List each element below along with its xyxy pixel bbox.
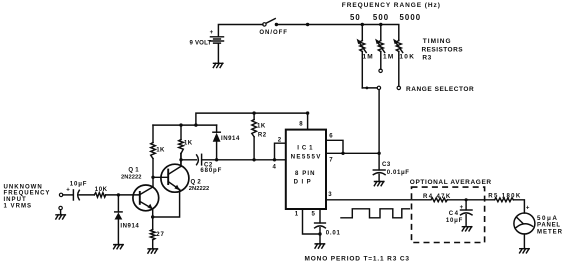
svg-text:TIMING: TIMING bbox=[423, 38, 452, 45]
svg-text:50μA: 50μA bbox=[537, 215, 558, 222]
svg-text:1 VRMS: 1 VRMS bbox=[4, 204, 33, 210]
svg-text:Q1: Q1 bbox=[128, 167, 140, 173]
svg-text:NE555V: NE555V bbox=[291, 153, 322, 160]
svg-text:1K: 1K bbox=[257, 124, 266, 130]
svg-text:6: 6 bbox=[329, 133, 333, 139]
svg-text:0.01: 0.01 bbox=[326, 231, 341, 237]
svg-text:8 PIN: 8 PIN bbox=[295, 171, 316, 177]
svg-text:INPUT: INPUT bbox=[4, 197, 27, 203]
svg-text:680pF: 680pF bbox=[200, 168, 222, 174]
svg-text:+: + bbox=[210, 30, 214, 36]
svg-text:FREQUENCY: FREQUENCY bbox=[4, 191, 51, 197]
svg-text:10μF: 10μF bbox=[446, 218, 463, 224]
svg-text:PANEL: PANEL bbox=[537, 223, 561, 229]
svg-text:1K: 1K bbox=[184, 141, 193, 147]
svg-text:5000: 5000 bbox=[400, 13, 422, 22]
svg-text:3: 3 bbox=[328, 192, 332, 198]
svg-text:RANGE SELECTOR: RANGE SELECTOR bbox=[406, 86, 474, 93]
svg-text:0.01μF: 0.01μF bbox=[387, 170, 410, 176]
svg-text:2N2222: 2N2222 bbox=[189, 186, 209, 192]
svg-text:.1M: .1M bbox=[380, 54, 394, 61]
svg-text:FREQUENCY RANGE (Hz): FREQUENCY RANGE (Hz) bbox=[342, 2, 441, 9]
svg-text:500: 500 bbox=[373, 13, 389, 22]
svg-text:7: 7 bbox=[329, 158, 333, 164]
svg-text:C3: C3 bbox=[382, 162, 391, 168]
svg-text:DIP: DIP bbox=[294, 180, 315, 186]
svg-text:+: + bbox=[66, 188, 70, 194]
svg-text:UNKNOWN: UNKNOWN bbox=[4, 184, 43, 190]
svg-text:10μF: 10μF bbox=[70, 181, 88, 187]
svg-text:9 VOLT: 9 VOLT bbox=[190, 40, 212, 46]
svg-text:2: 2 bbox=[278, 137, 282, 143]
svg-text:50: 50 bbox=[350, 13, 361, 22]
svg-text:R2: R2 bbox=[258, 132, 267, 138]
svg-text:C4: C4 bbox=[449, 211, 460, 217]
svg-text:IN914: IN914 bbox=[120, 224, 139, 230]
svg-text:2N2222: 2N2222 bbox=[121, 174, 141, 180]
svg-text:1M: 1M bbox=[363, 54, 374, 61]
svg-text:IC1: IC1 bbox=[297, 145, 315, 151]
svg-text:1K: 1K bbox=[156, 147, 165, 153]
svg-text:RESISTORS: RESISTORS bbox=[422, 46, 464, 53]
svg-text:ON/OFF: ON/OFF bbox=[259, 30, 288, 36]
svg-text:MONO PERIOD T=1.1 R3 C3: MONO PERIOD T=1.1 R3 C3 bbox=[305, 255, 410, 261]
svg-text:1: 1 bbox=[295, 212, 299, 218]
svg-text:METER: METER bbox=[537, 229, 563, 235]
svg-text:IN914: IN914 bbox=[221, 136, 240, 142]
svg-text:R3: R3 bbox=[422, 54, 432, 61]
svg-text:+: + bbox=[526, 205, 530, 211]
svg-text:OPTIONAL AVERAGER: OPTIONAL AVERAGER bbox=[410, 179, 492, 186]
svg-text:10K: 10K bbox=[95, 187, 108, 193]
svg-text:10K: 10K bbox=[399, 54, 415, 61]
svg-text:27: 27 bbox=[156, 232, 164, 238]
svg-text:8: 8 bbox=[299, 122, 303, 128]
svg-text:4: 4 bbox=[273, 165, 277, 171]
svg-text:5: 5 bbox=[312, 212, 316, 218]
svg-text:Q2: Q2 bbox=[191, 180, 203, 186]
